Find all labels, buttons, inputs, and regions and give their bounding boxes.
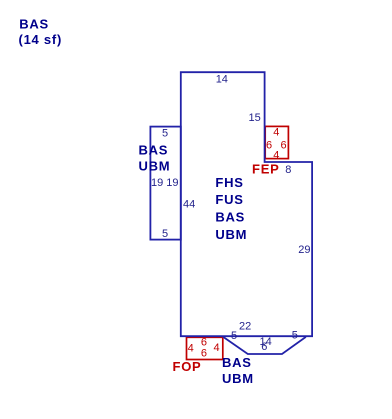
svg-text:4: 4 (188, 343, 194, 355)
svg-text:6: 6 (201, 347, 207, 359)
svg-text:FOP: FOP (173, 359, 202, 374)
svg-text:4: 4 (214, 342, 220, 354)
svg-text:15: 15 (249, 112, 261, 124)
main building outline (181, 72, 312, 336)
svg-text:6: 6 (281, 139, 287, 151)
svg-text:BAS: BAS (139, 142, 169, 157)
svg-text:6: 6 (266, 139, 272, 151)
svg-text:5: 5 (162, 128, 168, 140)
svg-text:UBM: UBM (215, 227, 247, 242)
svg-text:22: 22 (239, 320, 251, 332)
svg-text:6: 6 (261, 341, 267, 353)
svg-text:5: 5 (292, 329, 298, 341)
svg-text:BAS: BAS (222, 355, 252, 370)
svg-text:14: 14 (216, 73, 228, 85)
svg-text:19 19: 19 19 (151, 177, 179, 189)
svg-text:4: 4 (273, 149, 279, 161)
svg-text:BAS: BAS (19, 17, 49, 32)
svg-text:BAS: BAS (215, 210, 245, 225)
svg-text:FEP: FEP (252, 162, 280, 177)
FOP porch box (187, 337, 223, 359)
FEP porch box (265, 126, 288, 158)
svg-text:8: 8 (285, 164, 291, 176)
svg-text:4: 4 (273, 127, 279, 139)
bay deck outline (223, 337, 306, 354)
svg-text:5: 5 (231, 330, 237, 342)
svg-text:FUS: FUS (215, 192, 243, 207)
svg-text:(14 sf): (14 sf) (19, 32, 63, 47)
svg-text:29: 29 (298, 244, 310, 256)
svg-text:UBM: UBM (139, 159, 171, 174)
svg-text:5: 5 (162, 228, 168, 240)
left wing outline (150, 127, 180, 240)
svg-text:UBM: UBM (222, 371, 254, 386)
svg-text:44: 44 (183, 199, 195, 211)
svg-text:FHS: FHS (215, 175, 243, 190)
